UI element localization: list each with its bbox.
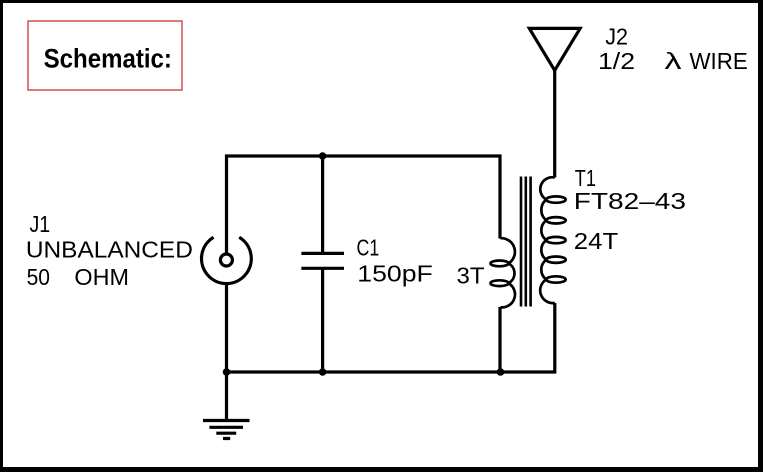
wire J1 bottom to ground stem xyxy=(225,283,228,420)
wire bottom bus: secondary bottom to J1 bottom xyxy=(227,303,555,372)
connector J1 xyxy=(202,237,252,283)
svg-text:Schematic:: Schematic: xyxy=(44,44,172,74)
wire primary bottom branch xyxy=(498,307,501,372)
svg-text:UNBALANCED: UNBALANCED xyxy=(26,237,193,263)
transformer T1 core xyxy=(521,177,531,307)
title box xyxy=(28,21,182,90)
wire C1 top branch xyxy=(321,156,324,253)
wire antenna to secondary top xyxy=(553,69,556,178)
wire C1 bottom branch xyxy=(321,268,324,372)
svg-text:C1: C1 xyxy=(357,235,380,261)
svg-text:3T: 3T xyxy=(457,263,485,289)
transformer T1 secondary winding 24T xyxy=(540,177,566,303)
node bottom junction at C1 xyxy=(319,368,327,376)
svg-text:J1: J1 xyxy=(30,211,51,237)
wire top bus: J1 top to primary top xyxy=(227,156,501,254)
svg-text:FT82–43: FT82–43 xyxy=(574,188,686,214)
svg-text:50OHM: 50OHM xyxy=(27,264,129,290)
svg-text:150pF: 150pF xyxy=(357,261,433,287)
ground xyxy=(203,421,250,439)
svg-text:24T: 24T xyxy=(574,228,618,254)
node bottom junction at J1 xyxy=(223,368,231,376)
svg-text:1/2λWIRE: 1/2λWIRE xyxy=(598,48,748,74)
svg-text:J2: J2 xyxy=(605,24,628,50)
capacitor C1 xyxy=(301,253,344,268)
node top junction at C1 xyxy=(319,152,327,160)
node bottom junction at primary xyxy=(497,368,505,376)
antenna J2 xyxy=(529,28,580,70)
transformer T1 primary winding 3T xyxy=(490,238,515,307)
